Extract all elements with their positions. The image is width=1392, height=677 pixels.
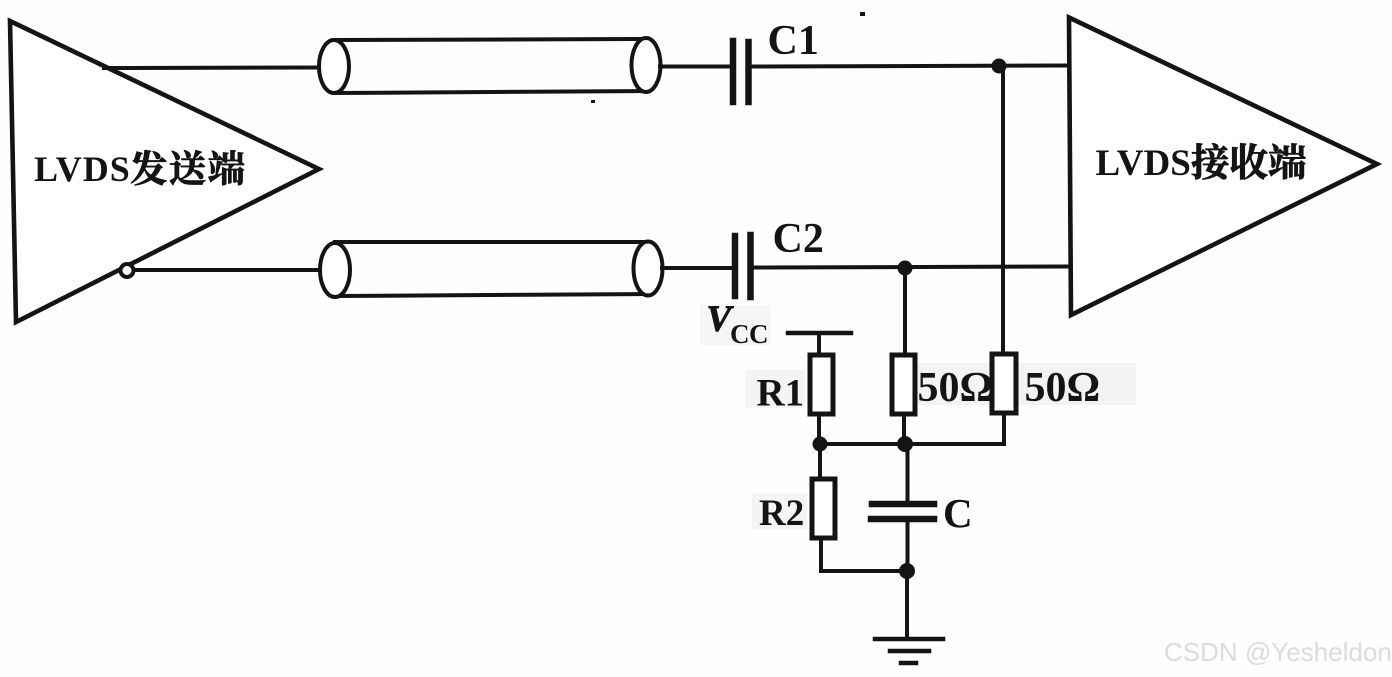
svg-text:C1: C1 [768,18,819,64]
svg-text:LVDS: LVDS [34,149,131,189]
svg-text:C: C [943,490,973,536]
svg-text:LVDS: LVDS [1096,143,1191,184]
svg-text:R1: R1 [757,372,805,415]
svg-text:CSDN @Yesheldon: CSDN @Yesheldon [1164,637,1392,667]
svg-text:50Ω: 50Ω [1025,365,1101,411]
svg-text:C2: C2 [773,216,824,262]
svg-text:50Ω: 50Ω [918,365,994,411]
svg-text:R2: R2 [759,493,804,534]
svg-text:CC: CC [730,319,768,349]
